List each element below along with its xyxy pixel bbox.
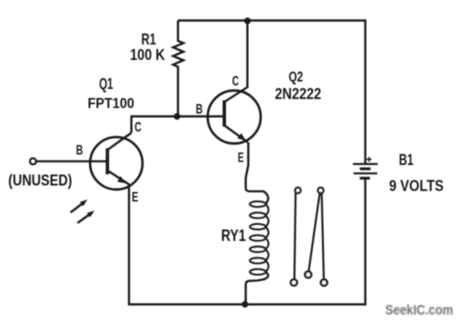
transistor Q1 base bar [106,148,109,174]
relay RY1 coil right-side connector arcs [266,204,269,272]
svg-text:SeekIC.com: SeekIC.com [385,302,453,318]
transistor Q2 collector stroke and wire up to top rail [225,21,247,102]
relay RY1 coil loop 3 [250,224,266,230]
relay RY1 coil loop 2 [250,213,266,219]
battery B1 plate 4 short (-) [360,177,370,180]
wire: Q2 emitter down to relay coil entry [246,143,268,205]
battery B1 plate 3 long [354,172,378,174]
relay contact right blade [322,194,324,280]
relay RY1 coil loop 7 [250,269,266,275]
svg-text:Q1: Q1 [99,76,113,93]
svg-text:9 VOLTS: 9 VOLTS [389,178,444,195]
relay contact left terminal [291,279,298,286]
svg-text:(UNUSED): (UNUSED) [8,172,72,189]
relay contact middle terminal [305,271,312,278]
transistor Q2 body circle [208,91,261,144]
input terminal (unused base lead) [30,158,36,164]
relay contact right terminal [321,279,328,286]
relay RY1 coil loop 6 [250,258,266,264]
svg-text:FPT100: FPT100 [88,95,135,112]
battery plus sign [367,158,372,160]
battery B1 plate 2 short [360,167,371,170]
svg-text:B1: B1 [399,152,414,169]
light arrow 1 [71,203,83,212]
battery B1 plate 1 long (+) [353,163,378,165]
svg-text:Q2: Q2 [289,69,303,85]
wire: base lead from terminal to Q1 base bar [36,160,107,162]
relay contact left arm top hook [295,188,301,194]
relay RY1 coil loop 5 [250,247,266,253]
svg-text:100 K: 100 K [130,47,166,64]
svg-text:C: C [135,119,142,135]
node C junction dot (coil return on bottom rail) [242,301,249,308]
relay RY1 coil loop 1 [250,201,266,207]
svg-text:2N2222: 2N2222 [275,86,321,103]
wire: right rail upper (top rail to battery +) [364,19,366,164]
light arrow 2 [78,214,90,223]
relay RY1 coil loop 4 [250,235,266,241]
node A junction dot (R1 bottom / Q1 collector / Q2 base) [174,113,181,120]
transistor Q2 emitter arrowhead [237,133,246,140]
svg-text:C: C [232,72,239,88]
transistor Q2 emitter stroke [225,126,248,143]
wire: Q1 collector to node A to Q2 base [131,116,224,132]
svg-text:E: E [132,189,139,205]
node B junction dot (Q2 collector on top rail) [244,18,251,25]
relay contact left arm blade [294,193,295,279]
svg-text:B: B [76,142,83,158]
transistor Q2 base bar [223,100,226,126]
relay contact slant blade [309,193,320,271]
wire: relay coil exit down to bottom rail [246,272,268,304]
svg-text:B: B [196,101,203,117]
transistor Q1 emitter stroke [108,171,130,185]
wire: top rail from R1 top to right rail [178,19,365,21]
svg-text:RY1: RY1 [221,226,246,245]
transistor Q1 body circle [90,137,142,189]
resistor R1 [173,21,183,117]
wire: right rail lower (battery - to bottom rail) and bottom rail and left rail (Q1 emitter) [129,179,365,305]
relay contact right arm top hook [318,188,324,194]
svg-text:E: E [238,149,244,165]
transistor Q1 collector stroke [108,133,131,150]
transistor Q1 emitter arrowhead [117,176,126,183]
